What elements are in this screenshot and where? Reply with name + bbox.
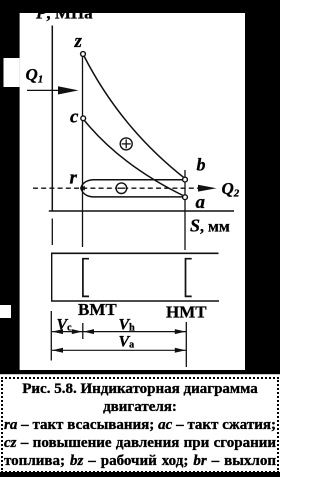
point c <box>81 116 86 121</box>
vertical line through z-c (BMT line) <box>82 54 84 247</box>
Q1 arrow <box>27 89 62 91</box>
cylinder bottom line <box>51 300 219 302</box>
cylinder top line <box>51 252 219 254</box>
piston bracket at NMT <box>186 259 192 297</box>
piston bracket at BMT <box>83 259 89 297</box>
Va dimension <box>52 349 186 351</box>
S axis (horizontal) <box>49 210 234 212</box>
svg-text:НМТ: НМТ <box>166 303 207 322</box>
loop vertex point r <box>80 186 85 191</box>
svg-text:a: a <box>196 192 206 213</box>
dashed atmospheric pressure line <box>33 187 199 189</box>
plus-in-circle (positive work) <box>120 138 132 150</box>
black scan border: left band <box>0 13 20 374</box>
svg-text:z: z <box>74 31 83 52</box>
minus-in-circle (negative work) <box>116 183 127 194</box>
point z <box>81 52 86 57</box>
compression curve c-a <box>83 119 185 197</box>
black scan border: top band <box>0 0 280 13</box>
white tab in left band <box>4 58 20 87</box>
svg-text:b: b <box>197 155 206 175</box>
Q2 arrow <box>198 185 217 192</box>
cylinder left edge <box>51 253 53 302</box>
svg-text:ВМТ: ВМТ <box>78 300 117 319</box>
Vh dimension <box>83 331 186 333</box>
black scan border: bottom bar <box>0 370 280 374</box>
svg-text:S, мм: S, мм <box>190 216 230 236</box>
point a <box>183 195 188 200</box>
vertical line through b-a (NMT line) <box>184 170 186 250</box>
black strip at very bottom <box>0 472 280 477</box>
expansion curve z-b <box>83 54 185 179</box>
pumping loop b-r-a <box>81 180 185 197</box>
svg-text:c: c <box>70 107 79 128</box>
figure caption box <box>1 377 279 473</box>
point b <box>183 177 188 182</box>
svg-text:r: r <box>70 168 78 189</box>
extension tick x=80 <box>82 323 84 339</box>
extension line x=51 <box>50 311 52 361</box>
white notch in left band <box>0 305 11 318</box>
black scan border: right band <box>245 13 280 373</box>
Vc dimension arrows <box>52 331 83 333</box>
P axis (vertical) <box>51 26 53 212</box>
extension line x=186 <box>185 322 187 367</box>
stub below axis at x=52 <box>51 219 53 246</box>
